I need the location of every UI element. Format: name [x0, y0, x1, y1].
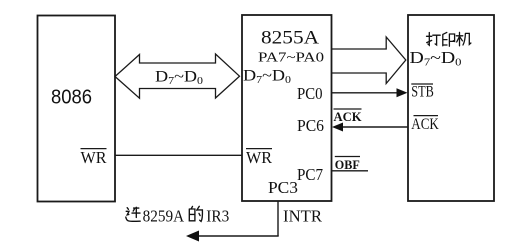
char 的 [189, 206, 202, 221]
label 连 8259A 的 IR3 [126, 206, 203, 221]
wire INTR horizontal to 8259A with arrowhead [190, 235, 279, 237]
svg-text:8255A: 8255A [261, 28, 319, 49]
svg-text:D7~D0: D7~D0 [410, 48, 462, 69]
char 连 [126, 207, 140, 221]
char 机 [456, 32, 471, 45]
wire PC0 to STB with arrowhead [332, 92, 404, 94]
bus double-arrow D7~D0 (8086 to 8255A) [115, 54, 240, 98]
svg-text:ACK: ACK [334, 109, 363, 124]
svg-text:STB: STB [411, 84, 434, 101]
wire INTR vertical [277, 201, 279, 236]
svg-text:8259A: 8259A [143, 206, 185, 225]
svg-text:WR: WR [246, 148, 273, 167]
wire WR (8086 to 8255A) [116, 154, 243, 156]
block 8086 [38, 16, 116, 202]
svg-text:D7~D0: D7~D0 [243, 68, 291, 87]
svg-text:PC6: PC6 [297, 116, 324, 135]
svg-text:PA7~PA0: PA7~PA0 [258, 51, 324, 66]
wire OBF stub (PC7) [332, 170, 369, 172]
char 印 [443, 32, 455, 46]
svg-text:IR3: IR3 [206, 206, 229, 225]
svg-text:INTR: INTR [283, 206, 323, 225]
svg-text:PC3: PC3 [268, 178, 298, 197]
char 打 [427, 33, 441, 46]
svg-text:8086: 8086 [51, 87, 92, 109]
label 打印机 [427, 32, 471, 46]
bus hollow arrow PA7~PA0 (8255A to printer) [332, 37, 406, 84]
block printer (打印机) [408, 15, 494, 201]
wire ACK (printer to PC6) with arrowhead [337, 126, 408, 128]
svg-text:ACK: ACK [411, 116, 439, 133]
svg-text:PC0: PC0 [297, 84, 323, 103]
svg-text:D7~D0: D7~D0 [155, 69, 203, 88]
svg-text:OBF: OBF [335, 157, 360, 172]
block 8255A [242, 15, 332, 201]
svg-text:PC7: PC7 [297, 165, 323, 184]
svg-text:WR: WR [81, 148, 108, 167]
